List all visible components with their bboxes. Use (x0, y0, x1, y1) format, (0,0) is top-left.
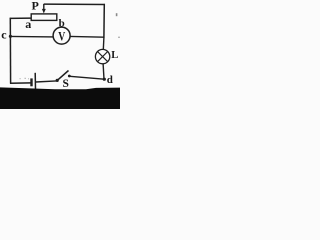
switch lever (57, 71, 68, 81)
lamp L circle (95, 49, 109, 63)
svg-text:V: V (58, 29, 65, 43)
svg-text:S: S (63, 78, 69, 90)
wire top-left horizontal (c branch to rheostat) (10, 17, 32, 19)
svg-text:L: L (111, 50, 118, 61)
svg-text:a: a (25, 17, 31, 31)
rheostat wiper arrow stem (43, 4, 45, 10)
voltmeter U1 circle (53, 27, 70, 44)
battery positive plate (long thin) (34, 73, 36, 90)
speckle near right edge (116, 13, 118, 16)
switch pivot dot (56, 79, 59, 82)
switch contact dot (68, 75, 71, 78)
rheostat P resistor box (31, 14, 57, 21)
paper background (0, 0, 120, 109)
node d junction dot (103, 78, 106, 81)
wire lamp bottom stub (102, 64, 105, 80)
wire right vertical (corner to T junction) (103, 4, 105, 38)
speckles above bottom wire (20, 78, 21, 79)
svg-text:b: b (59, 18, 65, 30)
wire left vertical (9, 18, 11, 84)
speckle at right of middle wire (118, 37, 119, 38)
svg-text:c: c (1, 28, 7, 42)
svg-text:P: P (32, 0, 39, 13)
lamp X diagonal 2 (98, 52, 108, 62)
wire lamp top stub (102, 38, 105, 50)
lamp X diagonal 1 (98, 52, 108, 62)
wire switch to node d (70, 76, 104, 79)
wire middle horizontal right (voltmeter to right wire) (70, 35, 104, 38)
wire top horizontal (44, 3, 105, 5)
wire middle horizontal left (c to voltmeter) (10, 35, 54, 38)
black bar at bottom (0, 87, 120, 109)
wire battery to switch pivot (36, 81, 57, 82)
battery negative plate (short thick) (30, 78, 32, 86)
svg-text:d: d (107, 74, 113, 86)
rheostat wiper arrowhead (42, 9, 46, 14)
wire bottom-left horizontal (10, 82, 31, 84)
node c junction dot (9, 35, 12, 38)
